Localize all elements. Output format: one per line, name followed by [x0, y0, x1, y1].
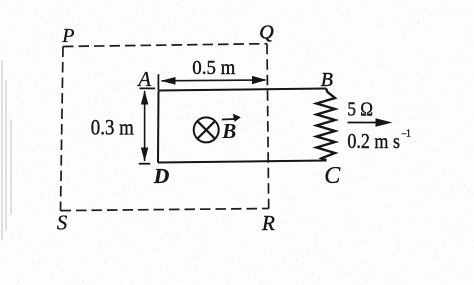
- svg-text:B: B: [321, 69, 333, 91]
- svg-text:Q: Q: [259, 22, 274, 44]
- dimension arrow 0.5 m (A to B): [158, 74, 266, 90]
- wire: top conductor A-B: [159, 89, 327, 91]
- svg-text:S: S: [57, 211, 68, 235]
- svg-text:R: R: [261, 211, 275, 235]
- wire: bottom conductor D-C: [158, 161, 327, 163]
- svg-text:D: D: [153, 164, 170, 188]
- svg-text:0.5 m: 0.5 m: [192, 57, 235, 79]
- resistor 5-ohm between B and C: [317, 89, 336, 161]
- wire: left conductor A-D: [157, 91, 160, 163]
- wire: dashed right edge Q-R: [267, 44, 269, 209]
- velocity arrow: [348, 118, 393, 127]
- wire: dashed left edge P-S: [61, 47, 64, 211]
- svg-text:C: C: [324, 163, 341, 189]
- svg-text:P: P: [61, 25, 74, 47]
- dashed field boundary rectangle PQRS: [61, 44, 269, 211]
- svg-text:B: B: [221, 119, 236, 143]
- field-into-page symbol (circle with X): [194, 117, 219, 142]
- wire: dashed top edge P-Q: [63, 44, 267, 47]
- svg-text:5 Ω: 5 Ω: [347, 100, 373, 121]
- svg-text:0.3 m: 0.3 m: [91, 114, 134, 139]
- wire: dashed bottom edge S-R: [61, 209, 269, 211]
- dimension arrow 0.3 m (A to D): [139, 88, 155, 163]
